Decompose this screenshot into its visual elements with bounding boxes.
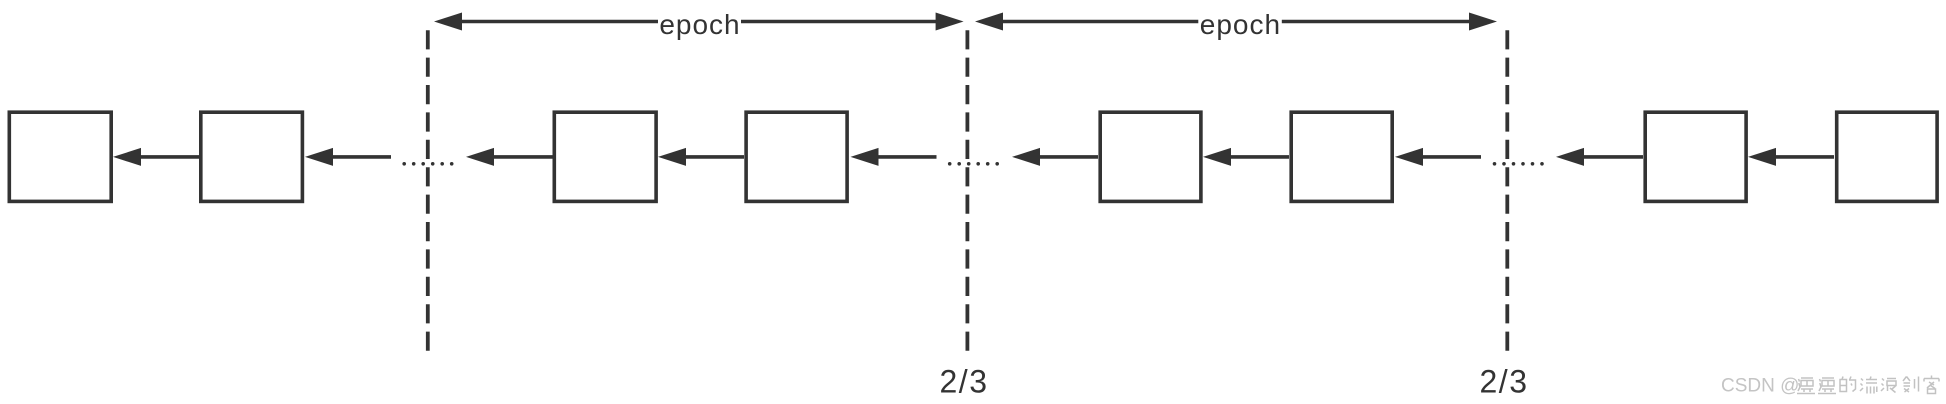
arrow B5 to dots2 bbox=[1012, 148, 1098, 166]
arrow from dots1 to B2 bbox=[305, 148, 391, 166]
block B8 bbox=[1837, 112, 1937, 201]
arrow B4 to B3 bbox=[658, 148, 744, 166]
dashed epoch boundary line 2 bbox=[966, 30, 970, 351]
epoch span arrow 2 (double headed) bbox=[975, 13, 1497, 31]
glyph 1 bbox=[1797, 378, 1815, 394]
block B4 bbox=[746, 112, 847, 201]
block B6 bbox=[1291, 112, 1392, 201]
svg-text:2/3: 2/3 bbox=[940, 364, 989, 400]
svg-text:2/3: 2/3 bbox=[1480, 364, 1529, 400]
glyph 2 bbox=[1818, 378, 1836, 394]
block B3 bbox=[554, 112, 656, 201]
dots ellipsis 3 bbox=[1493, 162, 1544, 166]
dots ellipsis 1 bbox=[402, 162, 453, 166]
arrow B7 to dots3 bbox=[1556, 148, 1643, 166]
block B1 bbox=[9, 112, 111, 201]
arrow from dots3 to B6 bbox=[1395, 148, 1481, 166]
dashed epoch boundary line 1 bbox=[426, 30, 430, 351]
svg-text:epoch: epoch bbox=[1200, 9, 1281, 40]
glyph 5 bbox=[1881, 379, 1896, 393]
dashed epoch boundary line 3 bbox=[1505, 30, 1509, 351]
arrow from dots2 to B4 bbox=[851, 148, 937, 166]
block B7 bbox=[1645, 112, 1746, 201]
arrow B2 to B1 bbox=[113, 148, 199, 166]
block B5 bbox=[1100, 112, 1201, 201]
block B2 bbox=[201, 112, 303, 201]
dots ellipsis 2 bbox=[948, 162, 999, 166]
glyph 4 bbox=[1860, 377, 1877, 394]
watermark fake CJK glyphs bbox=[1797, 376, 1939, 394]
glyph 7 bbox=[1924, 376, 1939, 394]
epoch span arrow 1 (double headed) bbox=[434, 13, 964, 31]
arrow B8 to B7 bbox=[1748, 148, 1834, 166]
svg-text:CSDN @: CSDN @ bbox=[1721, 376, 1799, 397]
arrow B3 to dots1 bbox=[466, 148, 553, 166]
glyph 3 bbox=[1840, 377, 1856, 392]
arrow B6 to B5 bbox=[1203, 148, 1289, 166]
glyph 6 bbox=[1903, 377, 1919, 393]
svg-text:epoch: epoch bbox=[659, 9, 740, 40]
